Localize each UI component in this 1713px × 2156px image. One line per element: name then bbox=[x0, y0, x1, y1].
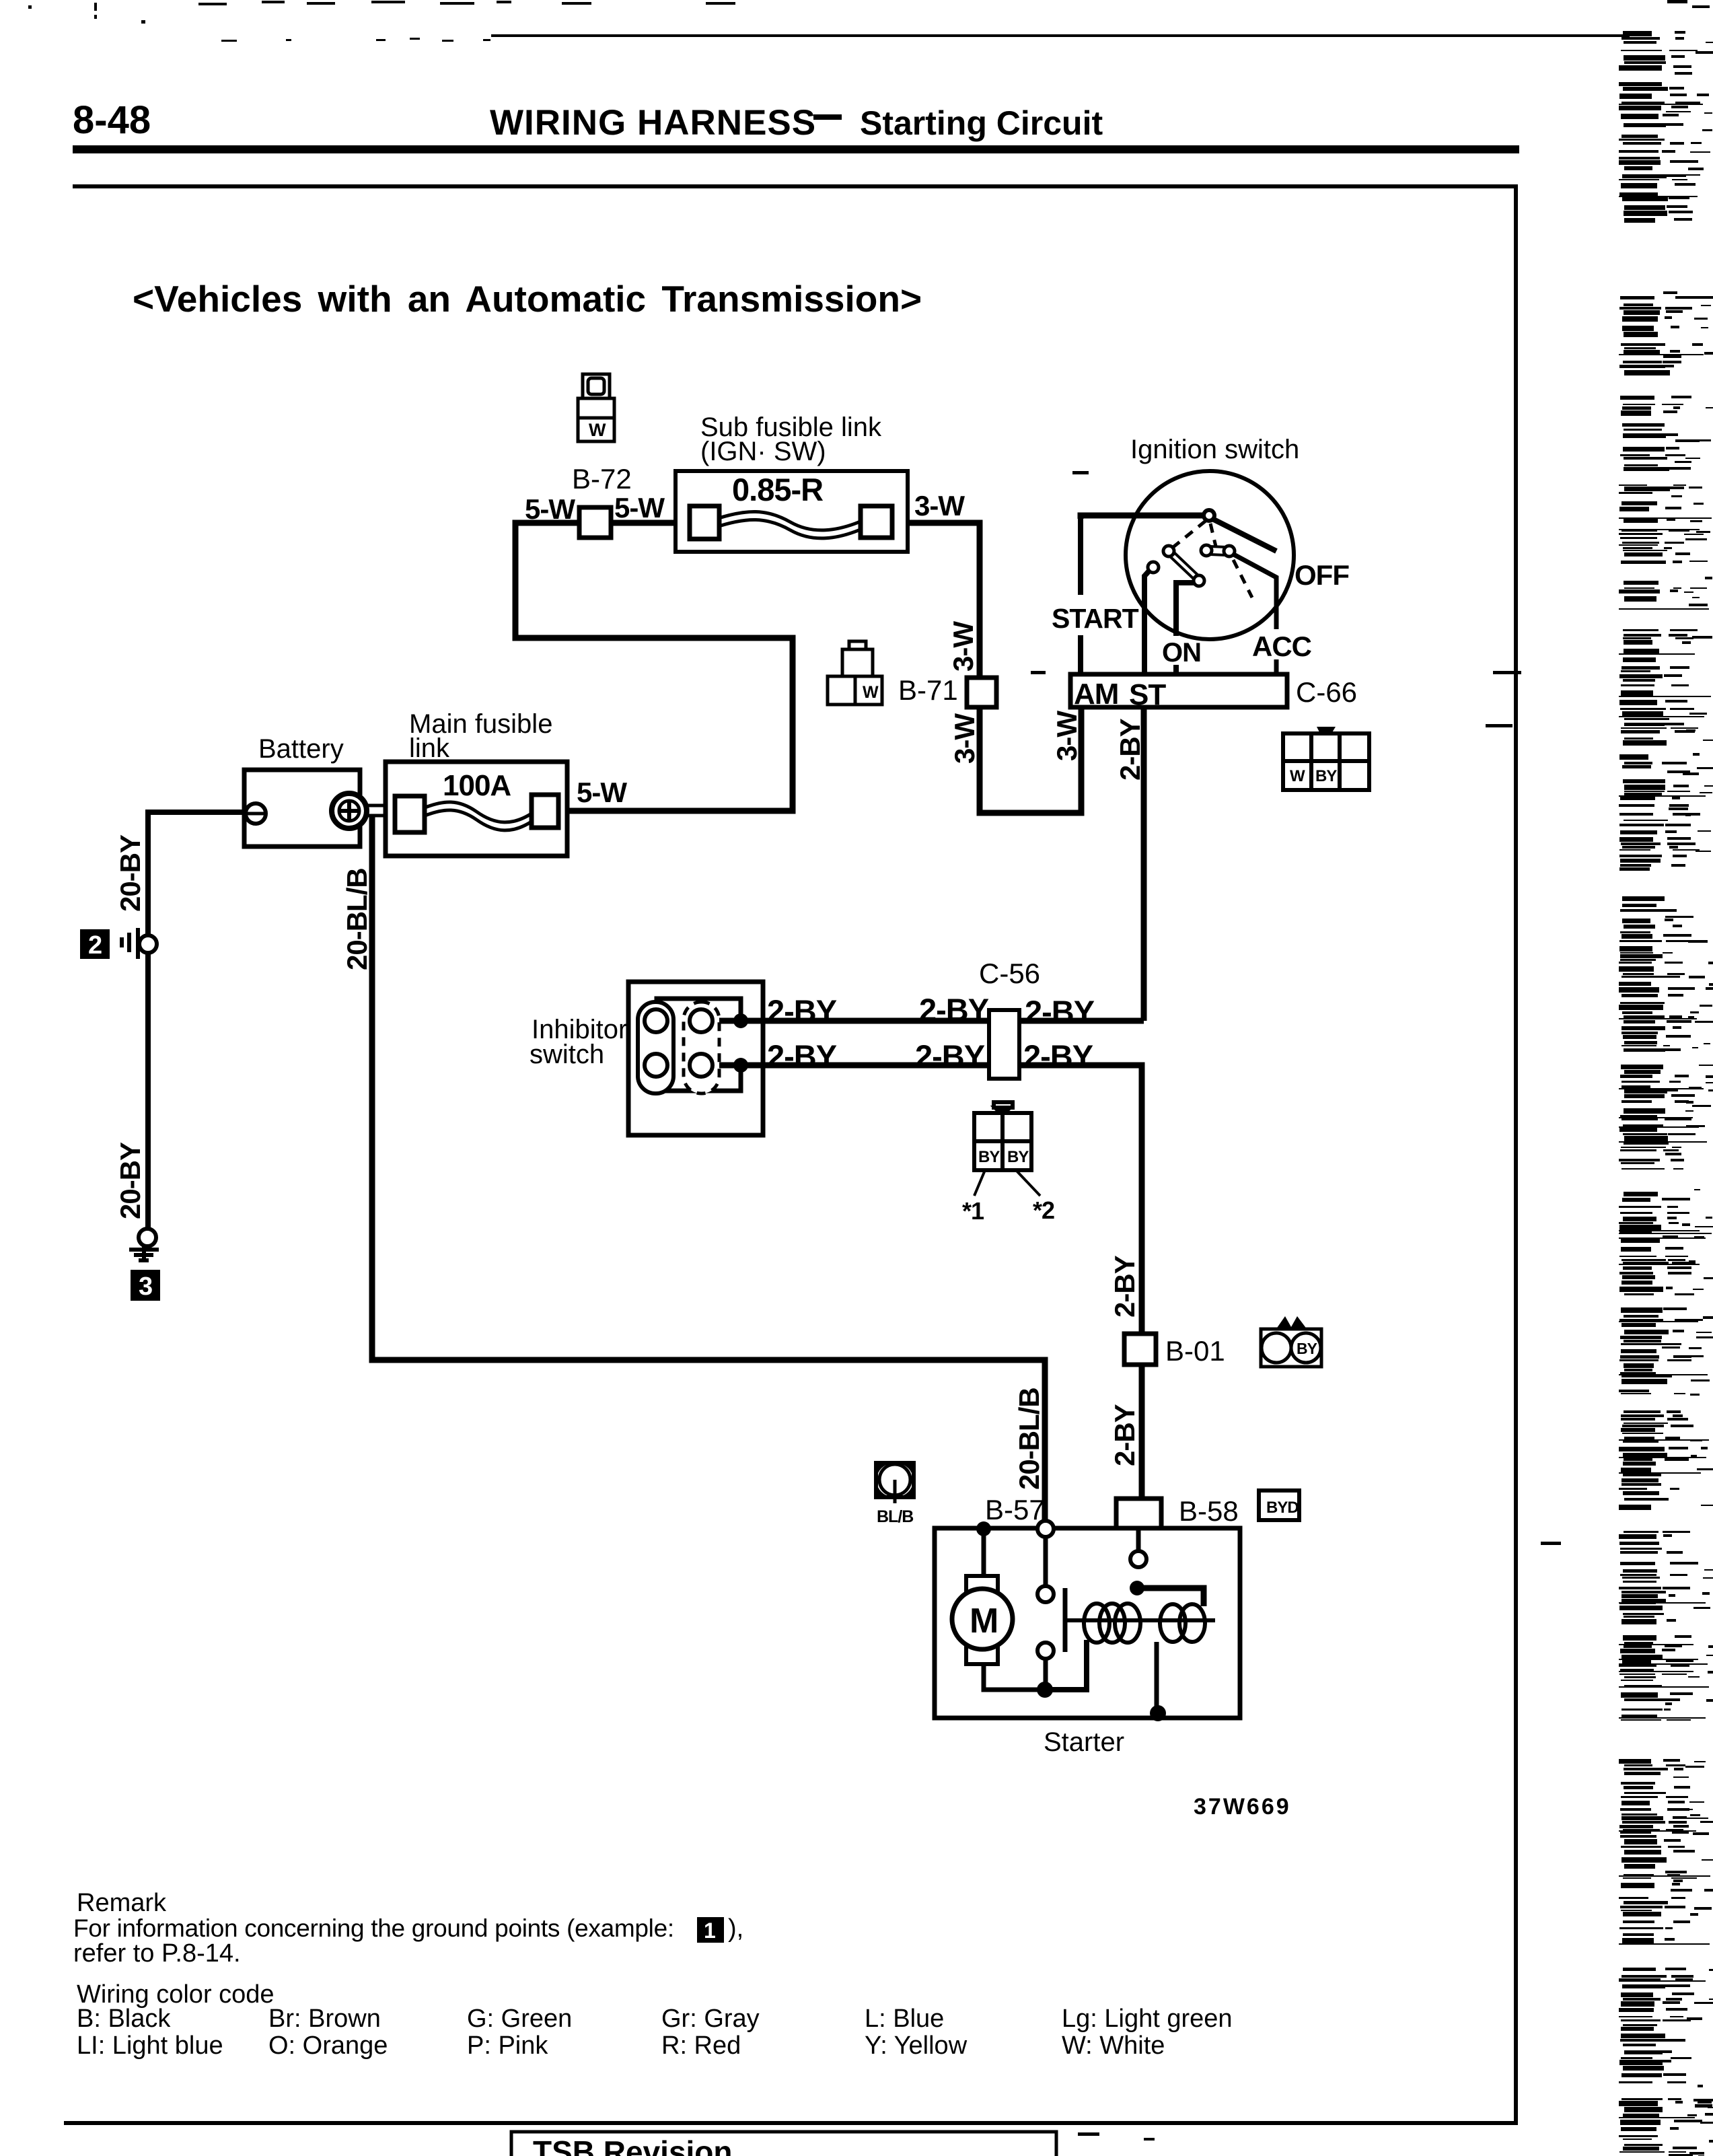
ignition switch movable contact (START side) bbox=[1169, 552, 1200, 581]
main fusible link terminal squares bbox=[395, 795, 558, 832]
battery positive terminal bbox=[332, 793, 367, 828]
svg-text:ACC: ACC bbox=[1252, 631, 1312, 662]
ground node 3 (end of 20-BY wire) bbox=[139, 1229, 156, 1246]
svg-text:2-BY: 2-BY bbox=[767, 1038, 837, 1074]
wire: battery negative to body grounds (20-BY) bbox=[148, 812, 248, 1229]
connector icon right of B-01 (two circles BY) bbox=[1276, 1316, 1307, 1330]
connector icon above B-72 (W plug) bbox=[578, 374, 614, 441]
label B-71 bbox=[898, 674, 958, 706]
svg-text:link: link bbox=[409, 733, 450, 763]
label 20-BY (vertical, lower) bbox=[114, 1142, 146, 1219]
svg-text:BY: BY bbox=[1007, 1148, 1029, 1166]
svg-text:W: W bbox=[589, 420, 606, 440]
svg-text:M: M bbox=[970, 1602, 998, 1641]
svg-text:BYD: BYD bbox=[1266, 1499, 1299, 1517]
sub fusible link terminal squares bbox=[690, 506, 892, 539]
svg-text:ST: ST bbox=[1129, 678, 1166, 711]
svg-text:Remark: Remark bbox=[77, 1889, 167, 1917]
remark heading bbox=[77, 1889, 167, 1917]
svg-text:For information concerning the: For information concerning the ground po… bbox=[73, 1914, 674, 1942]
svg-text:5-W: 5-W bbox=[525, 493, 575, 525]
starter: coil feed dot and wire bbox=[1130, 1581, 1144, 1595]
connector icon BY BY with leaders bbox=[974, 1102, 1031, 1170]
connector icon left of B-71 (W plug) bbox=[828, 641, 882, 705]
starter: coil core line bbox=[1065, 1618, 1215, 1622]
label 2-BY row2 b bbox=[915, 1038, 985, 1074]
wire: inhibitor switch lower 2-BY line to C-56 then down to B-01 and B-58 bbox=[713, 1065, 1142, 1499]
svg-text:Ignition switch: Ignition switch bbox=[1130, 435, 1299, 464]
label 100A bbox=[443, 769, 511, 802]
color code row 1 bbox=[77, 2005, 1233, 2033]
label 5-W (right of B-72) bbox=[614, 492, 665, 524]
ground point marker 2 bbox=[80, 929, 110, 960]
svg-text:1: 1 bbox=[704, 1918, 716, 1943]
label B-58 bbox=[1179, 1495, 1239, 1527]
remark line 1 bbox=[73, 1914, 743, 1943]
label 5-W (left of B-72) bbox=[525, 493, 575, 525]
label 5-W (right of main fusible link) bbox=[577, 777, 627, 808]
wire: main 5-W bus from main fusible link up to B-72 / sub fusible link and down to B-71 bbox=[515, 523, 1081, 813]
starter: wire from junction to coils bbox=[1045, 1640, 1087, 1690]
svg-text:0.85-R: 0.85-R bbox=[732, 472, 823, 507]
figure code 37W669 bbox=[1194, 1794, 1291, 1820]
remark line 2 bbox=[73, 1939, 241, 1968]
label C-56 bbox=[979, 958, 1040, 989]
svg-text:B-01: B-01 bbox=[1165, 1335, 1225, 1367]
connector B-58 rectangle on starter bbox=[1116, 1499, 1161, 1528]
wire: START vertical from switch to C-66 AM pin (gap for START label) bbox=[1078, 515, 1083, 674]
section heading Vehicles with an Automatic Transmission bbox=[133, 278, 922, 320]
label link bbox=[409, 733, 450, 763]
starter: solenoid contact circles bbox=[1037, 1586, 1054, 1659]
sub fusible link box bbox=[676, 471, 908, 552]
svg-text:Lg: Light green: Lg: Light green bbox=[1062, 2005, 1233, 2033]
svg-text:Starting Circuit: Starting Circuit bbox=[860, 104, 1103, 142]
starter: plunger bar bbox=[1063, 1588, 1068, 1652]
label Sub fusible link bbox=[700, 412, 882, 442]
svg-text:3-W: 3-W bbox=[914, 490, 965, 522]
label *2 bbox=[1033, 1196, 1054, 1224]
label 3-W (vertical, below B-71) bbox=[949, 713, 980, 764]
starter: solenoid contact wires bbox=[1044, 1537, 1048, 1690]
svg-text:<Vehicles with an Automatic Tr: <Vehicles with an Automatic Transmission… bbox=[133, 278, 922, 320]
svg-text:B: Black: B: Black bbox=[77, 2005, 171, 2033]
wire: 20-BL/B from battery positive down and right to starter B-57 bbox=[372, 817, 1045, 1521]
svg-text:C-56: C-56 bbox=[979, 958, 1040, 989]
svg-text:LI: Light blue: LI: Light blue bbox=[77, 2032, 223, 2060]
label ACC bbox=[1252, 631, 1312, 662]
color code row 2 bbox=[77, 2032, 1165, 2060]
connector C-66 box with AM ST bbox=[1070, 674, 1287, 707]
label B-01 bbox=[1165, 1335, 1225, 1367]
svg-text:Y: Yellow: Y: Yellow bbox=[865, 2032, 968, 2060]
label 2-BY row1 a bbox=[767, 993, 837, 1029]
svg-text:O: Orange: O: Orange bbox=[268, 2032, 388, 2060]
wiring color code heading bbox=[77, 1980, 275, 2009]
starter: case ground dot bbox=[1150, 1705, 1166, 1721]
svg-text:W: W bbox=[863, 683, 879, 702]
svg-text:Starter: Starter bbox=[1044, 1727, 1124, 1757]
label 2-BY (vertical, under C-66 ST) bbox=[1114, 718, 1146, 781]
label 2-BY row1 b bbox=[919, 992, 989, 1028]
svg-text:WIRING HARNESS: WIRING HARNESS bbox=[490, 103, 816, 143]
svg-text:B-72: B-72 bbox=[572, 463, 632, 495]
svg-text:BY: BY bbox=[1297, 1340, 1317, 1357]
wire: ignition switch feed (3-W) horizontal into pivot bbox=[1081, 515, 1204, 519]
connector icon BL/B (circle in square) bbox=[876, 1463, 914, 1497]
connector B-71 square bbox=[967, 678, 996, 707]
svg-text:3-W: 3-W bbox=[1051, 711, 1083, 761]
label B-72 bbox=[572, 463, 632, 495]
svg-text:2-BY: 2-BY bbox=[1023, 1038, 1093, 1074]
header title WIRING HARNESS - Starting Circuit bbox=[490, 103, 1103, 143]
svg-text:5-W: 5-W bbox=[577, 777, 627, 808]
label 3-W (vertical, above B-71) bbox=[947, 621, 979, 672]
connector BYD tag box bbox=[1259, 1490, 1299, 1520]
svg-text:20-BL/B: 20-BL/B bbox=[341, 868, 373, 970]
label *1 bbox=[962, 1197, 984, 1225]
svg-text:B-71: B-71 bbox=[898, 674, 958, 706]
starter: motor branch wire bbox=[984, 1529, 1040, 1690]
battery negative terminal bbox=[246, 803, 266, 824]
svg-text:START: START bbox=[1052, 603, 1139, 634]
label C-66 bbox=[1296, 676, 1357, 708]
label ON bbox=[1162, 638, 1201, 668]
svg-text:Battery: Battery bbox=[258, 734, 344, 764]
svg-text:B-58: B-58 bbox=[1179, 1495, 1239, 1527]
inhibitor left contact stadium bbox=[638, 1002, 673, 1093]
ground node 2 (circle on wire with chassis bars) bbox=[122, 928, 138, 959]
ignition switch circle bbox=[1126, 471, 1294, 639]
starter box bbox=[935, 1528, 1240, 1718]
inhibitor internal link top bbox=[657, 999, 741, 1014]
main fusible link fuse S-curve bbox=[422, 802, 534, 830]
wire: ST pin from switch contact to C-66 (x~1703) bbox=[1144, 569, 1151, 674]
starter: hold-in coil bbox=[1084, 1604, 1140, 1643]
label (IGN SW) bbox=[700, 437, 826, 466]
label 20-BY (vertical, upper) bbox=[114, 834, 146, 912]
label Battery bbox=[258, 734, 344, 764]
connector C-56 rectangle bbox=[989, 1010, 1019, 1079]
starter: lower junction dot bbox=[1037, 1682, 1053, 1698]
junction node upper bbox=[733, 1013, 748, 1028]
svg-text:8-48: 8-48 bbox=[73, 98, 151, 142]
starter: B-58 contact circle bbox=[1130, 1551, 1146, 1567]
svg-text:BY: BY bbox=[978, 1148, 1000, 1166]
label 2-BY row2 c bbox=[1023, 1038, 1093, 1074]
svg-text:2-BY: 2-BY bbox=[1109, 1404, 1140, 1466]
svg-text:ON: ON bbox=[1162, 638, 1201, 668]
label Main fusible bbox=[409, 709, 552, 739]
ignition switch movable contact (ACC side) bbox=[1210, 546, 1226, 555]
starter: B-57 terminal circle on top edge bbox=[1037, 1521, 1054, 1537]
svg-text:AM: AM bbox=[1074, 678, 1118, 711]
label Inhibitor bbox=[532, 1015, 627, 1044]
svg-text:C-66: C-66 bbox=[1296, 676, 1357, 708]
svg-text:R: Red: R: Red bbox=[661, 2032, 741, 2060]
label Starter bbox=[1044, 1727, 1124, 1757]
sub fusible link fuse S-curve bbox=[715, 511, 867, 538]
label B-57 bbox=[985, 1494, 1045, 1525]
starter: wire from B-58 into box bbox=[1136, 1528, 1141, 1551]
label 3-W (right of sub fusible link) bbox=[914, 490, 965, 522]
svg-text:20-BY: 20-BY bbox=[114, 1142, 146, 1219]
svg-text:20-BY: 20-BY bbox=[114, 834, 146, 912]
svg-text:OFF: OFF bbox=[1295, 559, 1349, 591]
ground point marker 3 bbox=[131, 1270, 160, 1301]
svg-text:*2: *2 bbox=[1033, 1196, 1054, 1224]
inhibitor switch box bbox=[628, 982, 763, 1135]
ignition switch lever (OFF position) bbox=[1211, 518, 1276, 551]
label 0.85-R bbox=[732, 472, 823, 507]
connector icon below C-66 (W BY grid) bbox=[1283, 727, 1369, 790]
wire: ACC branch from switch contact down to C-66 (gap for ACC label) bbox=[1231, 553, 1276, 674]
label START bbox=[1052, 603, 1139, 634]
ignition switch pivot node bbox=[1204, 510, 1214, 521]
svg-text:5-W: 5-W bbox=[614, 492, 665, 524]
svg-text:B-57: B-57 bbox=[985, 1494, 1045, 1525]
connector B-01 square bbox=[1124, 1334, 1156, 1365]
starter: coil to case ground wire bbox=[1155, 1642, 1159, 1713]
svg-text:20-BL/B: 20-BL/B bbox=[1013, 1388, 1045, 1490]
svg-text:Br: Brown: Br: Brown bbox=[268, 2005, 381, 2033]
svg-text:TSB Revision: TSB Revision bbox=[533, 2134, 733, 2156]
svg-text:2-BY: 2-BY bbox=[1114, 718, 1146, 781]
wire: inhibitor switch upper 2-BY line to C-56 and ignition bbox=[713, 1018, 1144, 1024]
label 2-BY row2 a bbox=[767, 1038, 837, 1074]
battery box bbox=[244, 770, 360, 847]
label 2-BY row1 c bbox=[1025, 994, 1095, 1030]
starter: junction dot on top edge bbox=[976, 1521, 991, 1536]
label 2-BY (vertical, above B-01) bbox=[1109, 1255, 1140, 1318]
svg-text:W: W bbox=[1290, 767, 1305, 785]
header thick rule bbox=[73, 145, 1519, 153]
svg-text:3-W: 3-W bbox=[947, 621, 979, 672]
svg-text:switch: switch bbox=[530, 1040, 604, 1069]
starter: motor M bbox=[966, 1576, 998, 1664]
svg-text:2-BY: 2-BY bbox=[767, 993, 837, 1029]
svg-text:P: Pink: P: Pink bbox=[467, 2032, 548, 2060]
label 20-BL/B (vertical, above B-57) bbox=[1013, 1388, 1045, 1490]
svg-text:Gr: Gray: Gr: Gray bbox=[661, 2005, 760, 2033]
svg-text:*1: *1 bbox=[962, 1197, 984, 1225]
label switch bbox=[530, 1040, 604, 1069]
connector B-72 square bbox=[579, 507, 611, 538]
svg-text:3-W: 3-W bbox=[949, 713, 980, 764]
svg-text:BL/B: BL/B bbox=[877, 1507, 913, 1526]
junction node lower bbox=[733, 1058, 748, 1073]
svg-text:37W669: 37W669 bbox=[1194, 1794, 1291, 1820]
label 2-BY (vertical, above B-58) bbox=[1109, 1404, 1140, 1466]
wire: double line battery positive to main fusible link bbox=[367, 805, 398, 816]
svg-text:W: White: W: White bbox=[1062, 2032, 1165, 2060]
main fusible link box bbox=[386, 762, 567, 856]
svg-text:),: ), bbox=[728, 1914, 743, 1943]
svg-text:100A: 100A bbox=[443, 769, 511, 802]
svg-text:(IGN· SW): (IGN· SW) bbox=[700, 437, 826, 466]
inhibitor internal link bottom bbox=[657, 1072, 741, 1093]
label 3-W (vertical, under C-66 AM) bbox=[1051, 711, 1083, 761]
svg-text:2-BY: 2-BY bbox=[919, 992, 989, 1028]
ignition switch dashed position lines bbox=[1171, 521, 1252, 598]
svg-text:L: Blue: L: Blue bbox=[865, 2005, 944, 2033]
svg-text:2-BY: 2-BY bbox=[1025, 994, 1095, 1030]
content frame border bbox=[64, 186, 1516, 2123]
svg-text:2-BY: 2-BY bbox=[915, 1038, 985, 1074]
svg-text:G: Green: G: Green bbox=[467, 2005, 572, 2033]
svg-text:refer to P.8-14.: refer to P.8-14. bbox=[73, 1939, 241, 1968]
svg-text:2: 2 bbox=[88, 931, 102, 960]
inhibitor right contact stadium (dashed) bbox=[684, 1002, 719, 1093]
svg-text:3: 3 bbox=[139, 1272, 153, 1301]
wire: ON branch inside switch with tick at C-66 bbox=[1176, 583, 1200, 674]
label Ignition switch bbox=[1130, 435, 1299, 464]
page number 8-48 bbox=[73, 98, 151, 142]
label OFF bbox=[1295, 559, 1349, 591]
svg-text:2-BY: 2-BY bbox=[1109, 1255, 1140, 1318]
wire: 2-BY from C-66 ST pin down to inhibitor circuit bbox=[1141, 707, 1147, 1021]
label 20-BL/B (vertical, below battery) bbox=[341, 868, 373, 970]
TSB Revision box bbox=[511, 2132, 1056, 2156]
starter: pull-in coil bbox=[1160, 1604, 1205, 1642]
svg-text:BY: BY bbox=[1315, 767, 1337, 785]
